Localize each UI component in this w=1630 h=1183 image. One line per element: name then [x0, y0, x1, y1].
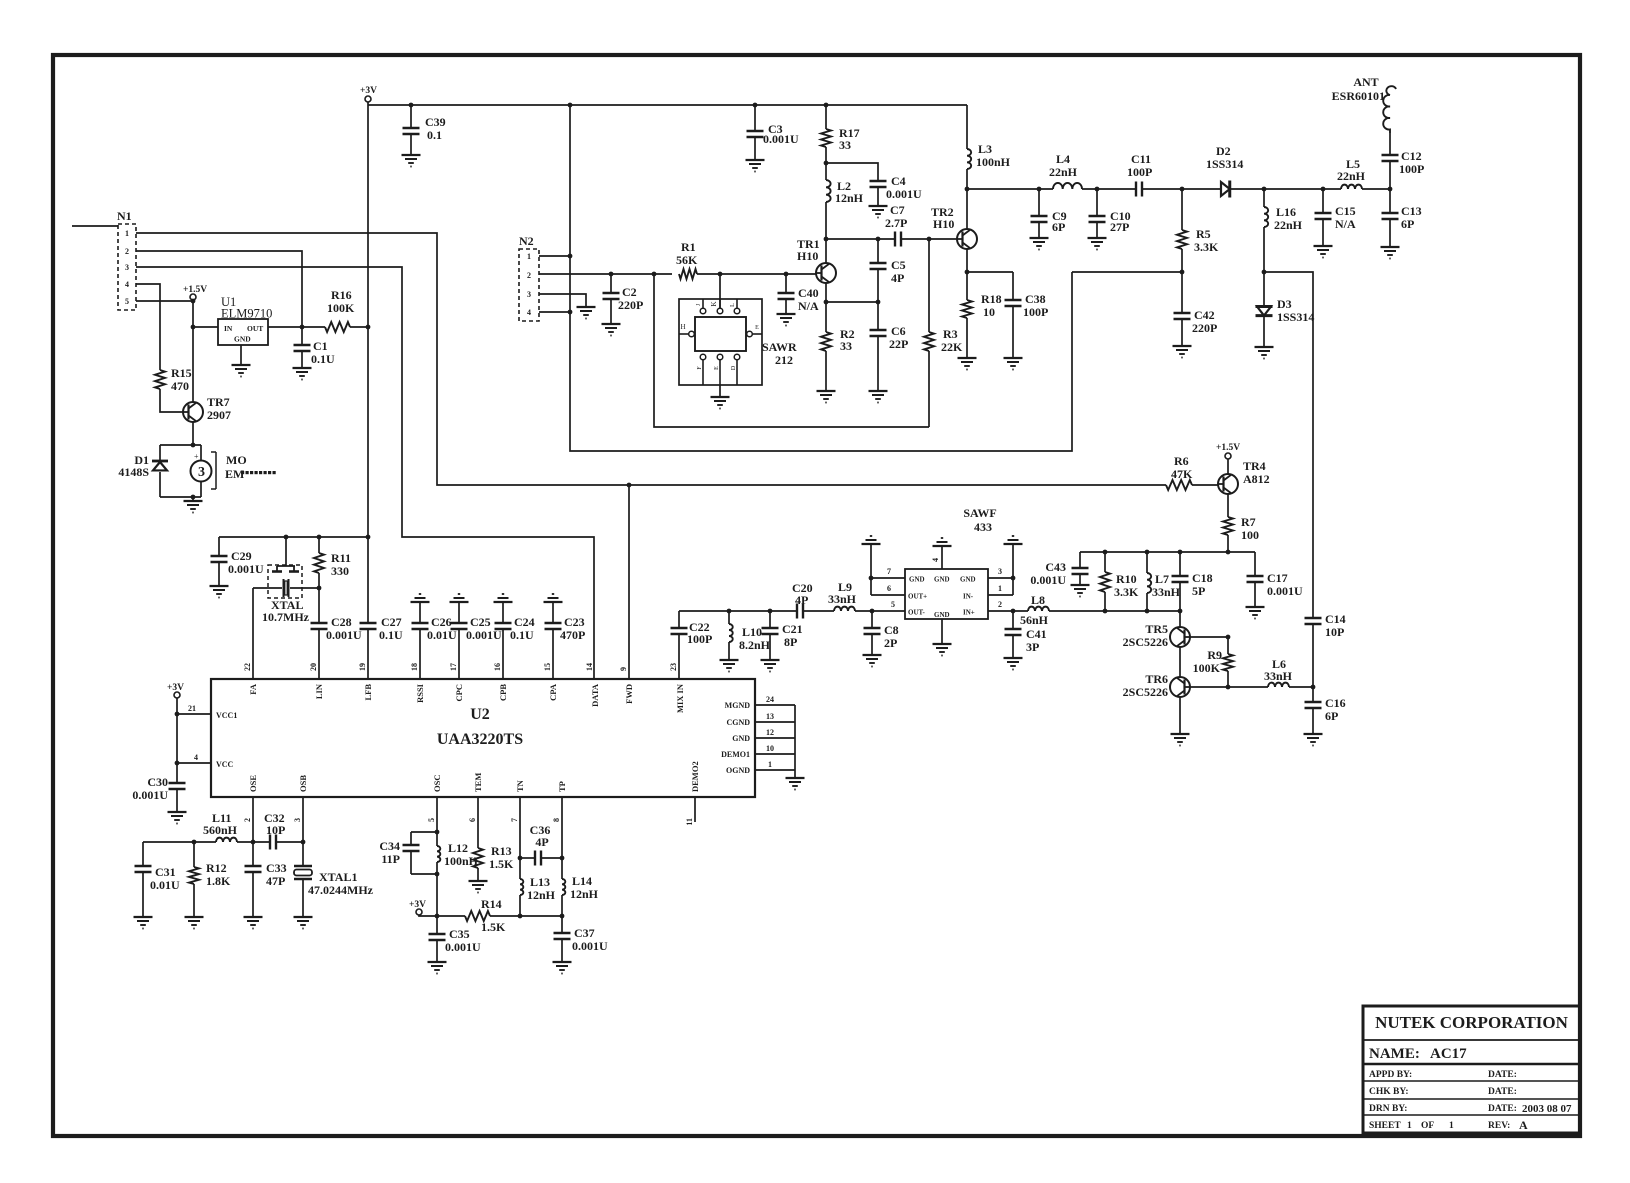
wire R9 bottom	[1227, 671, 1229, 687]
connector N1	[117, 209, 136, 310]
wire SAWF pin7	[871, 577, 905, 579]
svg-text:C13: C13	[1401, 204, 1422, 218]
svg-text:L14: L14	[572, 874, 592, 888]
wire SAWF pin4	[941, 546, 943, 569]
ground C31	[134, 917, 153, 929]
svg-text:E: E	[714, 366, 720, 370]
wire L13 top	[519, 858, 521, 879]
svg-text:470P: 470P	[560, 628, 585, 642]
svg-text:IN-: IN-	[963, 593, 974, 601]
wire TR7 emitter	[192, 422, 194, 445]
svg-text:8P: 8P	[784, 635, 797, 649]
svg-text:+: +	[194, 452, 199, 461]
wire R5 top	[1181, 189, 1183, 230]
svg-text:SAWR: SAWR	[762, 340, 797, 354]
svg-text:5: 5	[891, 600, 895, 609]
svg-text:L8: L8	[1031, 593, 1045, 607]
svg-text:22P: 22P	[889, 337, 908, 351]
svg-text:1SS314: 1SS314	[1206, 157, 1243, 171]
svg-text:1: 1	[1449, 1121, 1454, 1131]
capacitor C23	[545, 602, 562, 679]
svg-text:1.8K: 1.8K	[206, 874, 231, 888]
inductor L7	[1147, 552, 1151, 611]
wire L10 top	[728, 611, 730, 624]
wire C17 bottom	[1254, 582, 1256, 607]
svg-text:21: 21	[188, 704, 196, 713]
svg-text:100P: 100P	[1127, 165, 1152, 179]
svg-text:OUT+: OUT+	[908, 593, 927, 601]
svg-text:LFB: LFB	[363, 684, 373, 701]
wire 570 vertical	[570, 105, 1072, 451]
capacitor C27	[360, 623, 377, 629]
wire C42 bottom	[1181, 319, 1183, 346]
wire C37 top	[561, 916, 563, 933]
wire N1 lead-in	[72, 225, 118, 227]
ground motor	[184, 501, 203, 513]
svg-text:33nH: 33nH	[828, 592, 857, 606]
svg-text:R14: R14	[481, 897, 502, 911]
svg-text:4P: 4P	[535, 835, 548, 849]
wire C25 top	[458, 602, 460, 623]
svg-text:47.0244MHz: 47.0244MHz	[308, 883, 374, 897]
node R11/C28	[317, 586, 322, 591]
node N2 pin1	[568, 254, 573, 259]
wire C18 top	[1179, 552, 1181, 576]
svg-text:C18: C18	[1192, 571, 1213, 585]
svg-text:2SC5226: 2SC5226	[1123, 635, 1168, 649]
capacitor C10	[1089, 189, 1106, 238]
svg-text:4: 4	[527, 308, 531, 317]
wire SAWF left gnd column	[870, 544, 872, 595]
inductor L4	[1053, 183, 1082, 189]
node TP/C36	[560, 856, 565, 861]
svg-text:27P: 27P	[1110, 220, 1129, 234]
wire TP stub	[561, 797, 563, 858]
svg-text:6P: 6P	[1325, 709, 1338, 723]
svg-text:GND: GND	[732, 734, 750, 743]
inductor L10	[729, 611, 733, 660]
regulator U1 ELM9710	[218, 295, 272, 345]
svg-text:DEMO2: DEMO2	[690, 761, 700, 792]
svg-text:A812: A812	[1243, 472, 1270, 486]
node C21 tap	[768, 609, 773, 614]
wire to U1 IN	[193, 326, 218, 328]
svg-text:C25: C25	[470, 615, 491, 629]
capacitor C29	[211, 537, 228, 586]
svg-text:R5: R5	[1196, 227, 1211, 241]
capacitor C36	[520, 851, 562, 866]
svg-text:C37: C37	[574, 926, 595, 940]
svg-text:DEMO1: DEMO1	[721, 750, 750, 759]
wire C26 top	[419, 602, 421, 623]
capacitor C25	[451, 602, 468, 679]
svg-text:3.3K: 3.3K	[1194, 240, 1219, 254]
wire R10 top	[1104, 552, 1106, 572]
svg-text:2: 2	[243, 818, 252, 822]
resistor R7	[1223, 517, 1233, 535]
wire C36 left	[520, 857, 535, 859]
capacitor C24	[495, 602, 512, 679]
svg-text:13: 13	[766, 712, 774, 721]
wire C33 top	[252, 842, 254, 866]
svg-text:0.01U: 0.01U	[150, 878, 180, 892]
svg-text:33: 33	[839, 138, 851, 152]
wire R18 top	[966, 272, 968, 300]
node pin7 junction	[869, 576, 874, 581]
ground R2	[817, 391, 836, 403]
capacitor C39	[403, 105, 420, 155]
capacitor C20	[797, 604, 803, 619]
node L14/C37	[560, 914, 565, 919]
svg-text:2: 2	[125, 247, 129, 256]
wire C14 to L6 node	[1312, 624, 1314, 702]
wire D1 branch top	[159, 445, 161, 461]
power +3V (osc)	[409, 900, 426, 915]
svg-text:10: 10	[983, 305, 995, 319]
wire L11 to C32	[237, 841, 270, 843]
svg-text:1: 1	[527, 252, 531, 261]
wire C32 to OSB	[276, 841, 303, 843]
crystal XTAL 10.7MHz	[253, 535, 320, 598]
ground C10	[1088, 238, 1107, 250]
node XTAL rail	[284, 535, 289, 540]
svg-text:4: 4	[194, 753, 198, 762]
capacitor C32	[270, 835, 276, 850]
wire C22 line	[679, 610, 797, 612]
svg-text:22: 22	[243, 663, 252, 671]
node R7/rail	[1226, 550, 1231, 555]
wire SAWR K pin	[719, 274, 721, 308]
svg-text:C39: C39	[425, 115, 446, 129]
node R3 top	[927, 237, 932, 242]
U2 left pin VCC	[194, 753, 234, 769]
diode D2 1SS314	[1221, 181, 1230, 198]
wire C7 line	[826, 238, 895, 240]
svg-text:1: 1	[768, 760, 772, 769]
svg-text:TN: TN	[515, 779, 525, 792]
svg-text:433: 433	[974, 520, 992, 534]
svg-text:+1.5V: +1.5V	[1216, 443, 1240, 453]
svg-text:470: 470	[171, 379, 189, 393]
svg-text:MGND: MGND	[725, 701, 751, 710]
svg-text:C1: C1	[313, 339, 328, 353]
svg-text:24: 24	[766, 695, 774, 704]
wire R16 right	[350, 326, 368, 328]
svg-text:H10: H10	[933, 217, 954, 231]
svg-text:U2: U2	[470, 706, 490, 723]
svg-text:L12: L12	[448, 841, 468, 855]
wire C35 bottom	[436, 940, 438, 962]
wire R14 right	[490, 915, 520, 917]
svg-text:56nH: 56nH	[1020, 613, 1049, 627]
svg-text:12nH: 12nH	[835, 191, 864, 205]
wire N1 pin3 to rail and DATA	[136, 267, 594, 679]
svg-text:GND: GND	[934, 576, 950, 584]
wire N1 pin1 to TR4 base line	[136, 233, 1166, 485]
node R17/C4	[824, 161, 829, 166]
power +3V (top)	[360, 86, 377, 102]
capacitor C15	[1315, 189, 1332, 246]
wire TR2 emitter	[966, 249, 968, 272]
svg-text:6P: 6P	[1401, 217, 1414, 231]
svg-text:GND: GND	[960, 576, 976, 584]
node L16 tap	[1262, 187, 1267, 192]
resistor R11	[314, 537, 324, 587]
resistor R10	[1100, 552, 1110, 611]
svg-text:0.1U: 0.1U	[379, 628, 403, 642]
svg-text:R6: R6	[1174, 454, 1189, 468]
node LFB/rail	[366, 535, 371, 540]
node C15 tap	[1321, 187, 1326, 192]
svg-text:C26: C26	[431, 615, 452, 629]
connector N2	[519, 234, 539, 321]
wire C4 bottom	[877, 187, 879, 206]
wire C39 bottom	[410, 134, 412, 155]
svg-text:R1: R1	[681, 240, 696, 254]
svg-text:12nH: 12nH	[527, 888, 556, 902]
wire U2 bus to gnd	[794, 770, 796, 778]
svg-text:IN+: IN+	[963, 609, 975, 617]
wire emitter node	[826, 301, 878, 303]
svg-text:DATE:: DATE:	[1488, 1070, 1517, 1080]
svg-text:20: 20	[309, 663, 318, 671]
inductor L14	[562, 858, 565, 916]
node C9 tap	[1037, 187, 1042, 192]
wire L6 left	[1228, 686, 1268, 688]
svg-text:L10: L10	[742, 625, 762, 639]
capacitor C34	[403, 832, 420, 874]
capacitor C6	[870, 302, 887, 391]
ground C38	[1004, 358, 1023, 370]
svg-text:12nH: 12nH	[570, 887, 599, 901]
SAW filter SAWF 433	[905, 569, 988, 619]
node C3 tap	[753, 103, 758, 108]
svg-text:NAME:: NAME:	[1369, 1046, 1420, 1062]
svg-text:OUT-: OUT-	[908, 609, 926, 617]
svg-text:C23: C23	[564, 615, 585, 629]
power +1.5V (U1)	[183, 285, 207, 300]
wire C20 to L9	[803, 610, 834, 612]
wire top rail	[368, 104, 967, 106]
crystal XTAL1 47.0244MHz	[294, 842, 312, 917]
svg-text:L7: L7	[1155, 572, 1169, 586]
wire VCC stub	[177, 762, 211, 764]
capacitor C14	[1305, 618, 1322, 624]
wire +3V vertical / LFB column	[367, 102, 369, 623]
wire C24 bottom	[502, 629, 504, 679]
node pin5 junction	[191, 299, 196, 304]
inductor L13	[520, 858, 523, 916]
inductor L6	[1228, 683, 1313, 687]
capacitor C4	[870, 181, 887, 206]
svg-text:4P: 4P	[891, 271, 904, 285]
svg-text:2: 2	[998, 600, 1002, 609]
wire C10 top	[1096, 189, 1098, 216]
wire R1 to TR1 base	[697, 273, 816, 275]
wire R9 top	[1227, 637, 1229, 654]
svg-text:C27: C27	[381, 615, 402, 629]
wire C34 top link	[411, 831, 437, 833]
wire C26 bottom	[419, 629, 421, 679]
label sheet row	[1369, 1118, 1528, 1132]
svg-text:10P: 10P	[1325, 625, 1344, 639]
ground C6	[869, 391, 888, 403]
wire R2 bottom	[825, 351, 827, 391]
wire TEM stub	[477, 797, 479, 848]
capacitor C16	[1305, 702, 1322, 708]
svg-text:1.5K: 1.5K	[481, 920, 506, 934]
svg-text:E: E	[755, 325, 759, 331]
wire RF line A	[967, 188, 1053, 190]
svg-text:C42: C42	[1194, 308, 1215, 322]
wire U1 OUT to R16	[268, 326, 325, 328]
wire R3 top	[928, 239, 930, 332]
wire C41 bottom	[1012, 635, 1014, 658]
wire IF rail	[1080, 551, 1255, 553]
ground C39	[402, 155, 421, 167]
svg-text:R18: R18	[981, 292, 1002, 306]
inductor L2	[826, 180, 831, 202]
svg-text:14: 14	[585, 663, 594, 671]
wire XTAL1 bottom	[302, 879, 304, 917]
capacitor C7	[895, 232, 901, 247]
capacitor C12	[1382, 155, 1399, 161]
wire C31 top	[142, 842, 144, 866]
wire L16 node to C14 column	[1264, 272, 1313, 618]
wire R12 bottom	[193, 884, 195, 917]
wire L7 bottom	[1146, 593, 1148, 611]
svg-text:L: L	[730, 303, 736, 307]
node L7 bottom	[1145, 609, 1150, 614]
capacitor C22	[671, 611, 688, 679]
wire L3 column	[966, 105, 968, 149]
wire C15 bottom	[1322, 219, 1324, 246]
capacitor C3	[747, 105, 764, 160]
svg-text:SAWF: SAWF	[963, 506, 996, 520]
svg-text:0.001U: 0.001U	[763, 132, 799, 146]
wire ANT to C12	[1389, 133, 1391, 155]
wire N2 pin2	[539, 273, 672, 275]
capacitor C9	[1031, 189, 1048, 238]
svg-text:UAA3220TS: UAA3220TS	[437, 731, 523, 748]
U2 top pin numbers	[243, 663, 678, 671]
svg-text:C31: C31	[155, 865, 176, 879]
wire R18 bottom	[966, 318, 968, 358]
wire C35 top	[436, 916, 438, 934]
wire TN/TP bottom link	[520, 915, 562, 917]
power +1.5V (TR4)	[1216, 443, 1240, 459]
wire C41 top	[1012, 611, 1014, 629]
svg-text:47P: 47P	[266, 874, 285, 888]
svg-text:FA: FA	[248, 683, 258, 695]
wire TR1 collector	[825, 239, 827, 263]
svg-text:1: 1	[1407, 1121, 1412, 1131]
svg-text:TR6: TR6	[1145, 672, 1168, 686]
svg-text:10: 10	[766, 744, 774, 753]
wire N1 pin4	[136, 284, 160, 370]
wire C13 bottom	[1389, 219, 1391, 247]
node R5 tap	[1180, 187, 1185, 192]
node C5 top	[876, 237, 881, 242]
svg-text:220P: 220P	[618, 298, 643, 312]
node TR6/R9	[1226, 685, 1231, 690]
capacitor C21	[762, 611, 779, 660]
svg-text:DRN BY:: DRN BY:	[1369, 1104, 1407, 1114]
svg-text:C24: C24	[514, 615, 535, 629]
capacitor C18	[1172, 552, 1189, 611]
wire L13 bottom	[519, 895, 521, 916]
capacitor C40	[778, 274, 795, 314]
resistor R5	[1177, 189, 1187, 272]
svg-text:MO: MO	[226, 453, 247, 467]
node N2 pin4	[568, 310, 573, 315]
wire XTAL top lead	[285, 537, 287, 566]
wire N2 pin4	[539, 311, 570, 313]
svg-text:23: 23	[669, 663, 678, 671]
svg-text:GND: GND	[909, 576, 925, 584]
wire R10 bottom	[1104, 592, 1106, 611]
capacitor C42	[1174, 272, 1191, 346]
svg-text:47K: 47K	[1171, 467, 1193, 481]
svg-text:DATE:: DATE:	[1488, 1104, 1517, 1114]
svg-text:6: 6	[887, 584, 891, 593]
wire C38 top	[1012, 272, 1014, 300]
wire C12 to node	[1389, 161, 1391, 189]
svg-text:R3: R3	[943, 327, 958, 341]
svg-text:N2: N2	[519, 234, 534, 248]
wire C5 top	[877, 239, 879, 263]
svg-text:330: 330	[331, 564, 349, 578]
svg-text:5P: 5P	[1192, 584, 1205, 598]
svg-text:CPA: CPA	[548, 683, 558, 701]
node motor top	[191, 443, 196, 448]
node L7 top	[1145, 550, 1150, 555]
node C39 tap	[409, 103, 414, 108]
svg-text:19: 19	[358, 663, 367, 671]
svg-text:22nH: 22nH	[1337, 169, 1366, 183]
wire L16 bottom	[1263, 227, 1265, 272]
svg-text:CPC: CPC	[454, 684, 464, 701]
inductor L5	[1341, 185, 1362, 189]
ground C41	[1004, 658, 1023, 670]
wire RF line E	[1362, 188, 1390, 190]
capacitor C26	[412, 602, 429, 679]
inductor L9	[834, 607, 855, 611]
wire R6 to TR4	[1192, 484, 1218, 486]
capacitor C41	[1005, 611, 1022, 658]
wire R17 to L2	[825, 147, 827, 180]
wire C23 bottom	[552, 629, 554, 679]
capacitor C28	[311, 587, 328, 679]
node motor bottom	[191, 495, 196, 500]
wire OSB stub	[302, 797, 304, 842]
ground C35	[428, 962, 447, 974]
wire +1.5V to TR4	[1227, 459, 1229, 474]
wire C2 top	[610, 274, 612, 293]
svg-text:C2: C2	[622, 285, 637, 299]
wire N2 pin3	[539, 294, 586, 307]
svg-text:16: 16	[493, 663, 502, 671]
wire L16 top	[1263, 189, 1265, 207]
node L6/C14 column	[1311, 685, 1316, 690]
svg-text:8.2nH: 8.2nH	[739, 638, 771, 652]
label name row	[1369, 1046, 1467, 1062]
node C18 top	[1178, 550, 1183, 555]
svg-text:L4: L4	[1056, 152, 1070, 166]
svg-text:AC17: AC17	[1430, 1046, 1467, 1062]
wire TR6 emitter	[1179, 697, 1181, 734]
wire C30 bottom	[176, 789, 178, 812]
